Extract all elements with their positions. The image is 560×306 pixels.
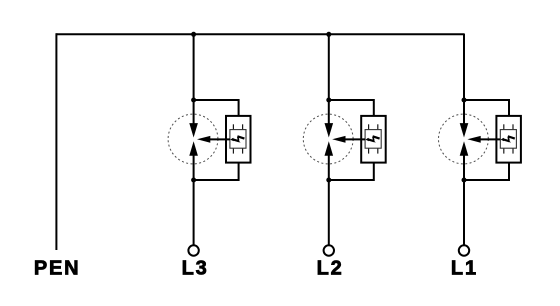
svg-text:L1: L1	[451, 258, 478, 280]
svg-text:L2: L2	[317, 258, 344, 280]
svg-text:PEN: PEN	[34, 258, 81, 280]
svg-text:L3: L3	[182, 258, 209, 280]
